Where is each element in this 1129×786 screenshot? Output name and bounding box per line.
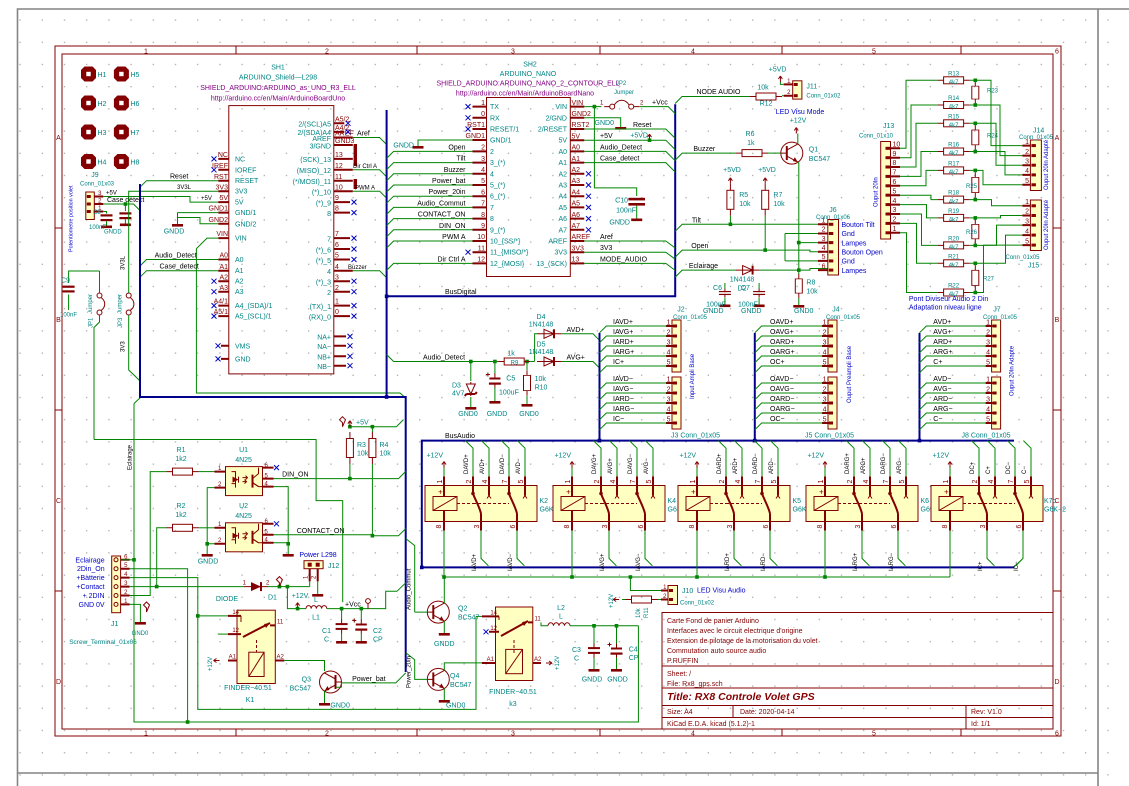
+12V right arrow K3.A2 bbox=[546, 661, 552, 665]
svg-text:5: 5 bbox=[667, 417, 671, 424]
capacitor C2 bbox=[360, 609, 362, 620]
svg-text:3: 3 bbox=[667, 397, 671, 404]
transistor Q1 BC547 bbox=[781, 142, 803, 164]
svg-text:H3: H3 bbox=[98, 130, 107, 137]
svg-text:C7: C7 bbox=[741, 285, 750, 292]
svg-text:J2: J2 bbox=[677, 307, 685, 314]
svg-text:Jumper: Jumper bbox=[614, 90, 634, 96]
svg-text:NB−: NB− bbox=[317, 364, 331, 371]
svg-text:+12V: +12V bbox=[292, 593, 309, 600]
svg-text:R21: R21 bbox=[948, 254, 960, 260]
wire J1.2 to R1 bbox=[130, 472, 167, 596]
svg-text:LED Visu Audio: LED Visu Audio bbox=[697, 588, 746, 595]
resistor R12 bbox=[750, 93, 782, 100]
connector J10 Conn_01x02 LED Visu Audio bbox=[661, 585, 746, 607]
svg-text:OAVG+: OAVG+ bbox=[770, 329, 794, 336]
svg-text:A1: A1 bbox=[572, 156, 581, 163]
svg-text:3V3: 3V3 bbox=[216, 184, 229, 191]
connector J3 Conn_01x05 bbox=[666, 377, 681, 429]
svg-text:DARD+: DARD+ bbox=[717, 453, 723, 474]
wire Tilt to J6.1 bbox=[675, 224, 828, 231]
relay K2 G6K-2 bbox=[425, 441, 562, 577]
svg-text:AVG−: AVG− bbox=[933, 386, 951, 393]
svg-text:(TX)_1: (TX)_1 bbox=[310, 304, 332, 311]
svg-text:1k: 1k bbox=[507, 351, 515, 358]
svg-text:3: 3 bbox=[823, 397, 827, 404]
svg-text:ARDUINO_NANO: ARDUINO_NANO bbox=[500, 71, 557, 78]
svg-text:NB+: NB+ bbox=[317, 355, 331, 362]
J13 routing wires bbox=[900, 80, 938, 292]
jumper JP1 bbox=[88, 271, 105, 440]
svg-text:6: 6 bbox=[1055, 731, 1059, 738]
svg-text:TX: TX bbox=[490, 104, 499, 111]
svg-text:Date: 2020-04-14: Date: 2020-04-14 bbox=[740, 709, 795, 716]
svg-text:A3: A3 bbox=[572, 178, 581, 185]
wire Buzzer to R6 bbox=[675, 153, 736, 160]
svg-text:VMS: VMS bbox=[235, 343, 251, 350]
network output wires bbox=[975, 80, 1022, 292]
svg-text:+Vcc: +Vcc bbox=[345, 602, 361, 609]
svg-text:C5: C5 bbox=[506, 376, 515, 383]
svg-text:SHIELD_ARDUINO:ARDUINO_NANO_2_: SHIELD_ARDUINO:ARDUINO_NANO_2_CONTOUR_EL… bbox=[436, 81, 619, 88]
svg-text:L: L bbox=[314, 597, 318, 604]
svg-text:Potentiometre position volet: Potentiometre position volet bbox=[69, 185, 75, 252]
svg-text:Eclairage: Eclairage bbox=[128, 444, 134, 470]
svg-text:Open: Open bbox=[448, 144, 465, 151]
svg-text:13: 13 bbox=[335, 152, 343, 159]
svg-text:Gnd: Gnd bbox=[842, 259, 855, 266]
svg-text:10k: 10k bbox=[636, 607, 642, 618]
wire J1.4 down-right bbox=[130, 578, 476, 710]
right no-connects bbox=[346, 121, 351, 126]
svg-text:Ouput Preampli Base: Ouput Preampli Base bbox=[847, 345, 853, 403]
bus BusAudio bbox=[420, 441, 1015, 568]
svg-text:Ouput 20In Adapte: Ouput 20In Adapte bbox=[1010, 345, 1016, 396]
svg-text:C: C bbox=[56, 498, 61, 505]
svg-text:12: 12 bbox=[477, 257, 485, 264]
svg-text:BC547: BC547 bbox=[290, 686, 312, 693]
svg-text:4: 4 bbox=[667, 407, 671, 414]
svg-text:H1: H1 bbox=[98, 72, 107, 79]
shunt resistor R24 bbox=[970, 123, 976, 151]
svg-text:Conn_01x05: Conn_01x05 bbox=[1005, 255, 1040, 261]
svg-text:K4: K4 bbox=[668, 498, 677, 505]
svg-text:4: 4 bbox=[691, 49, 695, 56]
svg-text:4: 4 bbox=[1025, 168, 1029, 175]
mounting hole H2 bbox=[81, 96, 96, 111]
svg-text:LED Visu Mode: LED Visu Mode bbox=[776, 109, 825, 116]
svg-text:11: 11 bbox=[535, 617, 542, 623]
svg-text:9: 9 bbox=[481, 223, 485, 230]
svg-text:(*)_10: (*)_10 bbox=[312, 190, 331, 197]
svg-text:3V3: 3V3 bbox=[555, 250, 568, 257]
svg-text:GND: GND bbox=[235, 356, 251, 363]
svg-text:4k7: 4k7 bbox=[949, 263, 959, 269]
svg-text:+Batterie: +Batterie bbox=[76, 575, 104, 582]
left pin names bbox=[235, 156, 272, 363]
right pin stubs bbox=[334, 123, 353, 365]
svg-text:Tilt: Tilt bbox=[456, 156, 465, 163]
resistor R21 bbox=[938, 260, 970, 267]
svg-text:9_(*): 9_(*) bbox=[490, 227, 505, 234]
svg-text:A6: A6 bbox=[572, 212, 581, 219]
svg-text:Title: RX8 Controle Volet GPS: Title: RX8 Controle Volet GPS bbox=[667, 691, 815, 703]
svg-text:BC547: BC547 bbox=[458, 615, 480, 622]
wire Audio_Detect A0 bbox=[140, 260, 218, 267]
svg-text:P.RUFFIN: P.RUFFIN bbox=[667, 658, 698, 665]
svg-text:AVD+: AVD+ bbox=[567, 327, 585, 334]
svg-text:J10: J10 bbox=[682, 588, 693, 595]
svg-text:IAVD−: IAVD− bbox=[508, 553, 514, 571]
svg-text:4: 4 bbox=[986, 407, 990, 414]
svg-text:Eclairage: Eclairage bbox=[689, 263, 718, 270]
svg-text:B: B bbox=[1055, 317, 1060, 324]
wire J1.5 down bbox=[130, 569, 188, 722]
svg-text:GND/1: GND/1 bbox=[235, 210, 257, 217]
wire K1.14 bbox=[198, 615, 228, 617]
svg-text:R14: R14 bbox=[948, 96, 960, 102]
svg-text:A6: A6 bbox=[558, 216, 567, 223]
svg-text:H6: H6 bbox=[131, 101, 140, 108]
svg-text:1: 1 bbox=[481, 100, 485, 107]
svg-text:File: Rx8_gps.sch: File: Rx8_gps.sch bbox=[667, 681, 723, 688]
wire J1.3 to diode bbox=[130, 586, 244, 588]
svg-text:2: 2 bbox=[986, 330, 990, 337]
svg-text:A7: A7 bbox=[558, 227, 567, 234]
svg-text:5V: 5V bbox=[219, 195, 228, 202]
svg-text:Dir Ctrl A: Dir Ctrl A bbox=[438, 256, 466, 263]
connector J14 Conn_01x05 bbox=[1019, 128, 1054, 191]
svg-text:3V3: 3V3 bbox=[121, 341, 127, 352]
svg-text:GND0: GND0 bbox=[794, 308, 814, 315]
mounting hole H8 bbox=[114, 154, 129, 169]
wire PWM A bbox=[353, 191, 387, 198]
svg-text:5: 5 bbox=[872, 731, 876, 738]
svg-text:4N25: 4N25 bbox=[235, 457, 252, 464]
mounting hole H1 bbox=[81, 67, 96, 82]
svg-text:BusAudio: BusAudio bbox=[445, 433, 475, 440]
svg-text:IAVG+: IAVG+ bbox=[613, 329, 633, 336]
resistor R13 bbox=[938, 77, 970, 84]
svg-text:10: 10 bbox=[477, 234, 485, 241]
capacitor C8 bbox=[103, 212, 106, 214]
SH2 GND1 bbox=[418, 140, 473, 141]
svg-text:Lampes: Lampes bbox=[842, 240, 867, 247]
wire Open to J6.4 bbox=[675, 250, 828, 257]
wire Eclairage to D2/J6.6 bbox=[675, 270, 735, 277]
svg-text:A1: A1 bbox=[558, 160, 567, 167]
svg-text:3V3: 3V3 bbox=[235, 189, 248, 196]
svg-text:DIN_ON: DIN_ON bbox=[282, 472, 308, 479]
wire Dir Ctrl A bbox=[353, 170, 387, 177]
svg-text:A4/1: A4/1 bbox=[214, 299, 229, 306]
svg-text:D4: D4 bbox=[537, 314, 546, 321]
svg-text:3V3: 3V3 bbox=[600, 245, 613, 252]
svg-text:Conn_01x03: Conn_01x03 bbox=[80, 182, 115, 188]
svg-text:3: 3 bbox=[667, 340, 671, 347]
wire +5V from J9.3 bbox=[103, 197, 218, 203]
svg-text:4V7: 4V7 bbox=[452, 391, 465, 398]
svg-text:2: 2 bbox=[667, 387, 671, 394]
svg-text:Input Ampli Base: Input Ampli Base bbox=[690, 353, 696, 399]
svg-text:J13: J13 bbox=[883, 123, 894, 130]
+12V left arrow K1.A1 bbox=[214, 659, 220, 663]
shunt resistor R26 bbox=[970, 218, 976, 246]
svg-text:IARG+: IARG+ bbox=[853, 552, 859, 571]
svg-text:NA+: NA+ bbox=[317, 335, 331, 342]
svg-text:IARD−: IARD− bbox=[613, 396, 634, 403]
svg-text:A1: A1 bbox=[219, 264, 228, 271]
svg-text:2: 2 bbox=[986, 387, 990, 394]
wire Aref AREF bbox=[584, 241, 675, 248]
svg-text:6_(*): 6_(*) bbox=[490, 194, 505, 201]
wire NODE AUDIO bbox=[675, 97, 750, 104]
svg-text:9: 9 bbox=[893, 151, 897, 158]
svg-text:C10: C10 bbox=[615, 198, 628, 205]
svg-text:Rev: V1.0: Rev: V1.0 bbox=[971, 709, 1002, 716]
svg-text:4k7: 4k7 bbox=[949, 170, 959, 176]
svg-text:R11: R11 bbox=[644, 607, 650, 618]
svg-text:4: 4 bbox=[667, 350, 671, 357]
svg-text:2: 2 bbox=[481, 145, 485, 152]
svg-text:J3 Conn_01x05: J3 Conn_01x05 bbox=[671, 433, 720, 440]
svg-text:5V: 5V bbox=[572, 133, 581, 140]
SH1 ARDUINO_Shield-L298 bbox=[200, 65, 356, 374]
mounting hole H4 bbox=[81, 154, 96, 169]
svg-text:+12V: +12V bbox=[426, 453, 443, 460]
svg-text:R12: R12 bbox=[760, 101, 773, 108]
svg-text:ARD−: ARD− bbox=[933, 396, 952, 403]
mounting hole H7 bbox=[114, 125, 129, 140]
svg-text:L: L bbox=[559, 614, 563, 621]
J5 wires bbox=[755, 383, 823, 430]
svg-text:RESET: RESET bbox=[235, 178, 259, 185]
svg-text:(*)_6: (*)_6 bbox=[316, 247, 331, 254]
svg-text:H2: H2 bbox=[98, 101, 107, 108]
svg-text:AVD−: AVD− bbox=[933, 376, 951, 383]
svg-text:GND0: GND0 bbox=[458, 411, 478, 418]
svg-text:A3: A3 bbox=[219, 285, 228, 292]
svg-text:J8 Conn_01x05: J8 Conn_01x05 bbox=[962, 433, 1011, 440]
svg-text:GNDD: GNDD bbox=[164, 229, 185, 236]
svg-text:+5VD: +5VD bbox=[758, 167, 776, 174]
svg-text:1N4148: 1N4148 bbox=[529, 349, 554, 356]
svg-text:NC: NC bbox=[235, 156, 245, 163]
svg-text:Sheet: /: Sheet: / bbox=[667, 671, 691, 678]
bus J4/J5 vertical bbox=[754, 333, 756, 441]
wire Audio_Detect bbox=[387, 355, 499, 362]
svg-text:Power_bat: Power_bat bbox=[352, 676, 386, 683]
resistor R4 10k bbox=[369, 432, 376, 464]
resistor R5 bbox=[727, 184, 734, 216]
C10 on VIN bbox=[594, 107, 636, 196]
svg-text:IAVD+: IAVD+ bbox=[613, 319, 633, 326]
svg-text:OARG−: OARG− bbox=[770, 406, 795, 413]
svg-text:+5V: +5V bbox=[356, 420, 369, 427]
wire R12 to J11.2 bbox=[782, 95, 784, 97]
svg-text:100nF: 100nF bbox=[60, 313, 77, 319]
svg-text:Conn_01x02: Conn_01x02 bbox=[806, 94, 841, 100]
wire Eclairage vertical bbox=[134, 398, 638, 723]
svg-text:H8: H8 bbox=[131, 160, 140, 167]
svg-text:5: 5 bbox=[667, 360, 671, 367]
svg-text:ARG+: ARG+ bbox=[933, 349, 952, 356]
svg-text:Aref: Aref bbox=[600, 234, 613, 241]
svg-text:(SCK)_13: (SCK)_13 bbox=[300, 157, 331, 164]
svg-text:8: 8 bbox=[893, 160, 897, 167]
svg-text:GNDD: GNDD bbox=[104, 230, 122, 236]
wire R2 left bbox=[157, 528, 167, 587]
resistor R9 bbox=[498, 358, 530, 365]
svg-text:2/(SCL)A5: 2/(SCL)A5 bbox=[298, 122, 331, 129]
svg-text:H5: H5 bbox=[131, 72, 140, 79]
svg-text:100uF: 100uF bbox=[499, 390, 519, 397]
svg-text:C−: C− bbox=[933, 416, 942, 423]
svg-text:C: C bbox=[324, 637, 329, 644]
svg-text:L1: L1 bbox=[312, 615, 320, 622]
svg-text:12_{MOSI}: 12_{MOSI} bbox=[490, 261, 525, 268]
svg-text:Audio_Detect: Audio_Detect bbox=[600, 144, 642, 151]
svg-text:J15: J15 bbox=[1028, 263, 1039, 270]
svg-text:D3: D3 bbox=[452, 383, 461, 390]
svg-text:GNDD: GNDD bbox=[703, 308, 724, 315]
svg-text:4N25: 4N25 bbox=[235, 513, 252, 520]
svg-text:R23: R23 bbox=[987, 89, 999, 95]
svg-text:IC−: IC− bbox=[1014, 561, 1020, 571]
svg-text:AVD+: AVD+ bbox=[480, 458, 486, 474]
svg-text:5: 5 bbox=[823, 417, 827, 424]
svg-text:12: 12 bbox=[232, 628, 239, 634]
svg-text:KiCad E.D.A. kicad (5.1.2)-1: KiCad E.D.A. kicad (5.1.2)-1 bbox=[667, 721, 755, 728]
svg-text:DARG+: DARG+ bbox=[845, 453, 851, 474]
svg-text:BusDigital: BusDigital bbox=[445, 289, 477, 296]
svg-text:OC+: OC+ bbox=[770, 359, 785, 366]
svg-text:Case_detect: Case_detect bbox=[600, 156, 639, 163]
svg-text:4: 4 bbox=[691, 731, 695, 738]
svg-text:IOREF: IOREF bbox=[235, 167, 256, 174]
svg-text:RX: RX bbox=[490, 115, 500, 122]
svg-text:C+: C+ bbox=[986, 466, 992, 474]
svg-text:Conn_01x05: Conn_01x05 bbox=[983, 315, 1018, 321]
svg-text:1k2: 1k2 bbox=[175, 512, 186, 519]
svg-text:4: 4 bbox=[893, 198, 897, 205]
svg-text:5: 5 bbox=[822, 254, 826, 261]
svg-text:2: 2 bbox=[327, 290, 331, 297]
right pin names bbox=[293, 122, 331, 371]
svg-text:3: 3 bbox=[335, 274, 339, 281]
svg-text:J11: J11 bbox=[806, 84, 817, 91]
svg-text:DARG−: DARG− bbox=[881, 453, 887, 474]
svg-text:1: 1 bbox=[893, 226, 897, 233]
svg-text:RST2: RST2 bbox=[572, 122, 590, 129]
diode D5 1N4148 bbox=[537, 357, 561, 366]
svg-text:2: 2 bbox=[1025, 209, 1029, 216]
svg-text:Q4: Q4 bbox=[450, 673, 459, 680]
svg-text:Q1: Q1 bbox=[809, 147, 818, 154]
svg-text:1: 1 bbox=[986, 377, 990, 384]
svg-text:DAVD−: DAVD− bbox=[500, 454, 506, 474]
svg-text:GNDD: GNDD bbox=[607, 677, 628, 684]
svg-text:R26: R26 bbox=[966, 230, 978, 236]
resistor R7 bbox=[762, 184, 769, 216]
svg-text:2: 2 bbox=[823, 330, 827, 337]
resistor R11 bbox=[658, 599, 662, 601]
svg-text:VIN: VIN bbox=[555, 104, 567, 111]
svg-text:PWM A: PWM A bbox=[355, 185, 375, 191]
optocoupler U1 4N25 bbox=[215, 467, 274, 496]
svg-text:11: 11 bbox=[335, 174, 342, 181]
svg-text:K1: K1 bbox=[246, 697, 255, 704]
svg-text:R20: R20 bbox=[948, 236, 960, 242]
svg-text:2: 2 bbox=[325, 731, 329, 738]
svg-text:Conn_01x10: Conn_01x10 bbox=[859, 134, 894, 140]
resistor R6 bbox=[736, 150, 768, 157]
svg-text:13: 13 bbox=[572, 257, 580, 264]
svg-text:6: 6 bbox=[481, 189, 485, 196]
svg-text:RST1: RST1 bbox=[467, 122, 485, 129]
svg-text:3: 3 bbox=[822, 236, 826, 243]
svg-text:A5: A5 bbox=[558, 205, 567, 212]
svg-text:AREF: AREF bbox=[548, 239, 567, 246]
svg-text:5V: 5V bbox=[235, 200, 244, 207]
svg-text:2: 2 bbox=[325, 49, 329, 56]
svg-text:H4: H4 bbox=[98, 160, 107, 167]
svg-text:+5V: +5V bbox=[600, 133, 613, 140]
relay K3 FINDER-40.51 bbox=[482, 607, 542, 681]
capacitor C4 bbox=[616, 626, 618, 644]
wire Audio_Detect A0 bbox=[584, 151, 675, 160]
svg-text:Conn_01x05: Conn_01x05 bbox=[673, 315, 708, 321]
wire J1.1 to gnd bbox=[130, 604, 141, 617]
svg-text:GND0: GND0 bbox=[595, 120, 615, 127]
svg-text:k3: k3 bbox=[509, 701, 517, 708]
svg-text:8: 8 bbox=[481, 212, 485, 219]
svg-text:Case_detect: Case_detect bbox=[160, 264, 199, 271]
resistor R15 bbox=[938, 120, 970, 127]
svg-text:1N4148: 1N4148 bbox=[730, 277, 755, 284]
wire U1.2 to gnd bbox=[207, 488, 214, 544]
svg-text:4: 4 bbox=[822, 245, 826, 252]
svg-text:C8: C8 bbox=[93, 210, 101, 216]
svg-text:A3: A3 bbox=[235, 289, 244, 296]
svg-text:R9: R9 bbox=[511, 361, 519, 367]
svg-text:+12V: +12V bbox=[208, 657, 214, 671]
capacitor on Case_detect bbox=[124, 204, 126, 211]
svg-text:R4: R4 bbox=[380, 442, 389, 449]
svg-text:GNDD: GNDD bbox=[434, 641, 455, 648]
svg-text:6: 6 bbox=[335, 242, 339, 249]
svg-text:C2: C2 bbox=[373, 628, 382, 635]
svg-text:IARD+: IARD+ bbox=[725, 553, 731, 571]
svg-text:4k7: 4k7 bbox=[949, 151, 959, 157]
svg-text:AVD−: AVD− bbox=[516, 458, 522, 474]
svg-text:GND0: GND0 bbox=[330, 703, 350, 710]
svg-text:C−: C− bbox=[1022, 466, 1028, 474]
svg-text:3: 3 bbox=[986, 340, 990, 347]
svg-text:100nF: 100nF bbox=[616, 208, 636, 215]
svg-text:J9: J9 bbox=[91, 172, 99, 179]
svg-text:5: 5 bbox=[893, 188, 897, 195]
svg-text:JP1: JP1 bbox=[89, 317, 95, 328]
J8 wires bbox=[920, 383, 987, 430]
svg-text:4: 4 bbox=[823, 350, 827, 357]
svg-text:AREF: AREF bbox=[335, 131, 354, 138]
svg-text:1: 1 bbox=[144, 731, 148, 738]
svg-text:5V: 5V bbox=[558, 138, 567, 145]
inductor L2 bbox=[541, 622, 548, 625]
svg-text:Bouton Open: Bouton Open bbox=[842, 250, 883, 257]
svg-text:SH1: SH1 bbox=[271, 65, 285, 72]
